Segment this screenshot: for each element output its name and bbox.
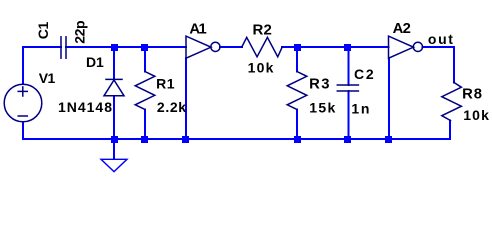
wire A2 output to out corner <box>423 47 455 83</box>
node at C2 top <box>344 44 351 51</box>
wire top-left horizontal to C1 <box>23 46 61 48</box>
wire R8 bottom stub <box>449 121 451 140</box>
svg-text:15k: 15k <box>309 99 335 115</box>
svg-text:C1: C1 <box>35 21 51 39</box>
svg-text:C2: C2 <box>354 66 374 82</box>
wire A1 output to R2 <box>220 46 242 48</box>
resistor R2 <box>242 37 282 56</box>
svg-text:R2: R2 <box>253 21 272 38</box>
svg-text:out: out <box>428 31 453 47</box>
wire R3 top stub <box>296 47 298 72</box>
wire C2 bottom <box>348 91 350 139</box>
svg-text:2.2k: 2.2k <box>157 99 186 115</box>
wire R3 bottom stub <box>296 110 298 140</box>
node at C2 bottom <box>344 136 351 143</box>
wire A1 ground drop <box>185 58 187 139</box>
node A <box>294 44 301 51</box>
capacitor C2 <box>337 85 358 91</box>
wire V1 bottom vertical <box>22 122 24 139</box>
node at R1 bottom <box>141 136 148 143</box>
resistor R1 <box>135 72 155 110</box>
node at A2 drop <box>385 136 392 143</box>
diode D1 <box>104 79 124 95</box>
wire V1 top vertical <box>22 47 24 84</box>
voltage source V1 <box>4 84 42 122</box>
svg-text:V1: V1 <box>39 70 56 86</box>
resistor R3 <box>287 72 307 110</box>
svg-text:D1: D1 <box>86 54 104 70</box>
svg-text:10k: 10k <box>248 60 274 76</box>
svg-text:22p: 22p <box>72 20 88 43</box>
svg-text:R1: R1 <box>156 75 175 91</box>
wire C1 right plate to A1 input <box>66 46 186 48</box>
wire A2 ground drop <box>388 58 390 139</box>
svg-text:1N4148: 1N4148 <box>58 99 112 115</box>
node at A1 drop <box>182 136 189 143</box>
svg-text:10k: 10k <box>463 107 489 123</box>
svg-text:R3: R3 <box>309 77 329 93</box>
ground <box>101 159 127 171</box>
wire node to A2 input <box>297 46 389 48</box>
svg-text:A1: A1 <box>189 21 206 37</box>
wire R1 bottom stub <box>144 110 146 140</box>
capacitor C1 <box>61 37 66 58</box>
wire ground stub <box>113 139 115 159</box>
node at R3 bottom <box>294 136 301 143</box>
wire R2 right to node <box>282 46 297 48</box>
wire D1 top <box>113 47 115 80</box>
wire bottom rail <box>23 138 450 140</box>
svg-text:A2: A2 <box>393 21 411 37</box>
wire R1 top stub <box>144 47 146 72</box>
node at R1 top <box>141 44 148 51</box>
op-amp inverter A2 <box>389 36 423 58</box>
wire D1 bottom <box>113 96 115 139</box>
resistor R8 <box>442 82 462 120</box>
svg-text:1n: 1n <box>351 100 369 116</box>
svg-text:R8: R8 <box>462 86 482 102</box>
node at D1 bottom <box>111 136 118 143</box>
wire C2 top <box>348 47 350 85</box>
op-amp inverter A1 <box>186 36 220 58</box>
node at D1 top <box>111 44 118 51</box>
